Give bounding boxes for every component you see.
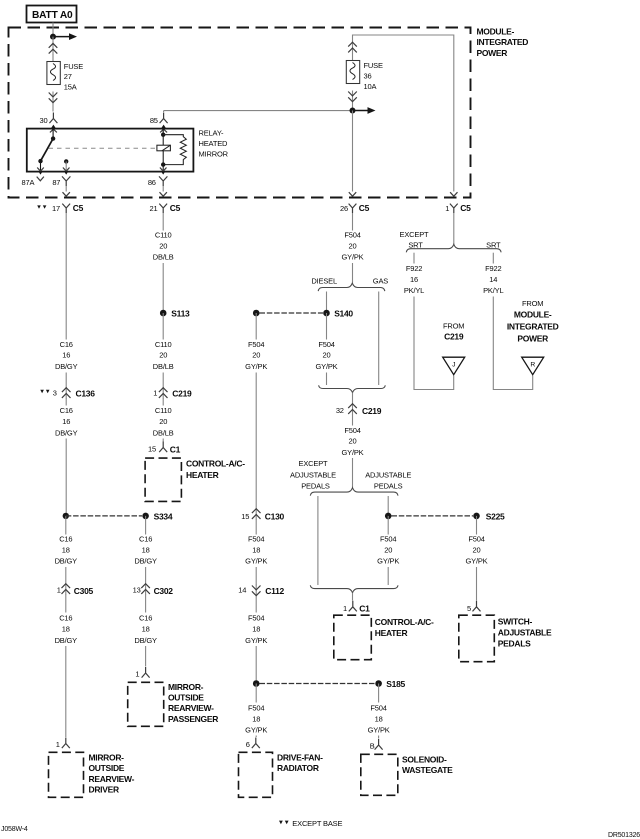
svg-text:10A: 10A	[364, 82, 377, 91]
node splice S140	[323, 310, 330, 317]
svg-text:GY/PK: GY/PK	[245, 362, 267, 371]
svg-text:PEDALS: PEDALS	[301, 481, 330, 490]
svg-text:C5: C5	[460, 203, 471, 213]
svg-text:PK/YL: PK/YL	[483, 286, 503, 295]
node splice S225	[473, 513, 480, 520]
svg-text:36: 36	[364, 72, 372, 81]
wire to pedals split	[352, 458, 354, 488]
svg-text:MODULE-: MODULE-	[514, 310, 552, 320]
svg-text:C302: C302	[154, 586, 174, 596]
solenoid-wastegate box	[361, 754, 398, 795]
relay pin 87A exit	[40, 161, 42, 171]
svg-text:15: 15	[148, 445, 156, 454]
svg-text:20: 20	[384, 545, 392, 554]
svg-text:20: 20	[349, 242, 357, 251]
off-page connector triangle R	[522, 357, 544, 375]
wire C5-17 down	[65, 213, 67, 340]
wire label C16 16 DB/GY	[65, 399, 67, 406]
wire C5-21 down	[162, 213, 164, 231]
wire label C110 20 DB/LB	[162, 313, 164, 340]
brace pedals split	[310, 488, 398, 496]
fuse 27 15A	[47, 62, 60, 85]
svg-text:FUSE: FUSE	[364, 61, 383, 70]
relay coil suppression resistor	[163, 135, 186, 165]
wire gas branch	[378, 292, 380, 386]
relay coil symbol	[157, 145, 171, 151]
wire C5-26 down	[352, 213, 354, 231]
relay switch blade	[41, 139, 54, 162]
wire down to mirror passenger	[145, 646, 147, 667]
node battery junction	[50, 34, 56, 40]
svg-text:13: 13	[133, 586, 141, 595]
wire label F504 20 GY/PK (left splice leg)	[255, 313, 257, 340]
wire pin87 to border	[65, 186, 67, 192]
svg-text:16: 16	[62, 351, 70, 360]
svg-text:18: 18	[62, 625, 70, 634]
svg-text:PK/YL: PK/YL	[404, 286, 424, 295]
wire down to drive-fan	[255, 736, 257, 738]
svg-text:SOLENOID-: SOLENOID-	[402, 754, 447, 764]
connector C305 pin 1	[62, 583, 71, 595]
svg-text:F504: F504	[248, 613, 264, 622]
wire relay pin85 horizontal from fuse36 junction	[164, 110, 353, 112]
svg-text:20: 20	[159, 242, 167, 251]
wire junction to fuse 27	[52, 37, 54, 44]
svg-text:C130: C130	[265, 512, 285, 522]
svg-text:3: 3	[53, 388, 57, 397]
node splice dot left	[63, 513, 69, 519]
relay coil branch	[162, 129, 164, 135]
svg-text:MIRROR-: MIRROR-	[89, 752, 125, 762]
wire splice link to S185	[260, 683, 376, 685]
svg-text:F504: F504	[318, 340, 334, 349]
switch-adjustable pedals box	[459, 615, 495, 662]
node splice dot adjustable pedals	[385, 513, 392, 520]
svg-text:S334: S334	[154, 512, 173, 522]
connector C1 pin 15	[162, 439, 164, 442]
svg-text:C1: C1	[359, 603, 370, 613]
connector C112 pin 14	[252, 585, 261, 597]
svg-text:26: 26	[340, 204, 348, 213]
svg-text:GY/PK: GY/PK	[341, 448, 363, 457]
wire except-pedals branch	[317, 496, 319, 585]
svg-text:CONTROL-A/C-: CONTROL-A/C-	[375, 617, 434, 627]
connector C219 pin 1	[159, 387, 168, 399]
svg-text:27: 27	[64, 72, 72, 81]
svg-text:S185: S185	[386, 679, 405, 689]
wire	[352, 263, 354, 283]
svg-text:HEATER: HEATER	[186, 470, 219, 480]
svg-text:20: 20	[473, 545, 481, 554]
wire label F504 20 GY/PK (adj pedals leg)	[387, 516, 389, 535]
svg-text:18: 18	[62, 545, 70, 554]
control-a/c-heater box 1	[145, 458, 181, 501]
connector C5 pin 26	[349, 192, 357, 213]
svg-text:C16: C16	[139, 535, 152, 544]
svg-text:MIRROR: MIRROR	[199, 150, 229, 159]
mirror-outside rearview-passenger box	[128, 682, 164, 726]
svg-text:5: 5	[467, 604, 471, 613]
pin 30 connector into relay	[49, 113, 57, 124]
svg-text:HEATER: HEATER	[375, 628, 408, 638]
svg-text:C136: C136	[76, 389, 96, 399]
connector C130 pin 15	[252, 508, 261, 520]
wire adjustable-pedals branch to dot	[387, 496, 389, 516]
svg-text:C16: C16	[59, 613, 72, 622]
svg-text:C110: C110	[155, 406, 172, 415]
wire down to splice dot	[255, 646, 257, 684]
svg-text:87: 87	[52, 178, 60, 187]
svg-text:C219: C219	[362, 406, 382, 416]
svg-text:15A: 15A	[64, 83, 77, 92]
svg-text:MIRROR-: MIRROR-	[168, 682, 204, 692]
svg-text:F504: F504	[248, 340, 264, 349]
connector C136 pin 3	[62, 387, 71, 399]
svg-text:6: 6	[246, 740, 250, 749]
svg-text:F504: F504	[344, 426, 360, 435]
svg-text:F922: F922	[485, 264, 501, 273]
svg-text:DIESEL: DIESEL	[311, 276, 337, 285]
svg-text:GY/PK: GY/PK	[377, 557, 399, 566]
wire label C16 18 DB/GY	[145, 516, 147, 535]
wire down to mirror driver	[65, 646, 67, 737]
fuse 36 10A	[346, 61, 359, 84]
svg-text:EXCEPT BASE: EXCEPT BASE	[292, 819, 342, 828]
svg-text:C1: C1	[170, 444, 181, 454]
relay linkage dashed line	[49, 147, 157, 149]
wire label F504 18 GY/PK	[378, 684, 380, 703]
svg-text:RELAY-: RELAY-	[199, 129, 224, 138]
wire BATT A0 to junction	[52, 23, 54, 37]
svg-text:REARVIEW-: REARVIEW-	[89, 774, 135, 784]
svg-text:20: 20	[159, 417, 167, 426]
svg-text:GAS: GAS	[373, 276, 388, 285]
svg-text:20: 20	[323, 351, 331, 360]
wire label C16 18 DB/GY	[65, 516, 67, 535]
svg-text:DB/LB: DB/LB	[153, 362, 174, 371]
svg-text:1: 1	[445, 204, 449, 213]
connector C5 pin 17	[62, 192, 70, 213]
wire diesel branch to S140	[326, 292, 328, 314]
wire label F504 20 GY/PK	[476, 516, 478, 535]
svg-text:C112: C112	[265, 586, 284, 596]
label EXCEPT BASE note	[279, 821, 289, 825]
svg-text:DB/GY: DB/GY	[55, 428, 78, 437]
svg-text:16: 16	[62, 417, 70, 426]
svg-text:18: 18	[142, 625, 150, 634]
svg-text:GY/PK: GY/PK	[465, 557, 487, 566]
svg-text:F504: F504	[248, 703, 264, 712]
svg-text:EXCEPT: EXCEPT	[400, 230, 430, 239]
node splice S113	[160, 310, 167, 317]
wire to triangle R	[493, 297, 532, 390]
svg-text:1: 1	[153, 388, 157, 397]
svg-text:17: 17	[52, 204, 60, 213]
wire merge to C1-1	[352, 593, 354, 601]
svg-text:PASSENGER: PASSENGER	[168, 714, 218, 724]
svg-text:18: 18	[252, 715, 260, 724]
svg-text:DR501326: DR501326	[608, 832, 640, 839]
node splice S185	[375, 680, 382, 687]
wire top horizontal to C5-1 drop	[353, 35, 454, 192]
svg-text:OUTSIDE: OUTSIDE	[89, 763, 125, 773]
connector C5 pin 21	[159, 192, 167, 213]
relay pin 87 contact	[64, 159, 68, 163]
svg-text:POWER: POWER	[477, 48, 508, 58]
wire junction arrow right	[53, 36, 70, 38]
connector C5 pin 1	[450, 192, 458, 213]
svg-text:C5: C5	[359, 203, 370, 213]
node splice dot left of S140	[253, 310, 260, 317]
svg-text:ADJUSTABLE: ADJUSTABLE	[498, 628, 552, 638]
svg-text:F504: F504	[468, 535, 484, 544]
svg-text:PEDALS: PEDALS	[498, 639, 531, 649]
svg-text:ADJUSTABLE: ADJUSTABLE	[290, 470, 336, 479]
svg-text:RADIATOR: RADIATOR	[277, 763, 319, 773]
svg-text:DB/GY: DB/GY	[134, 557, 157, 566]
svg-text:32: 32	[336, 406, 344, 415]
off-page connector triangle J	[443, 357, 465, 375]
wire label F504 18 GY/PK	[255, 684, 257, 703]
wire	[65, 373, 67, 388]
wire SRT branch	[492, 253, 494, 264]
svg-text:GY/PK: GY/PK	[341, 253, 363, 262]
wire label F504 20 GY/PK (S140 leg)	[326, 313, 328, 340]
svg-text:GY/PK: GY/PK	[245, 725, 267, 734]
svg-text:20: 20	[159, 351, 167, 360]
svg-text:1: 1	[343, 604, 347, 613]
wire merge to C219-32	[352, 393, 354, 403]
svg-text:C219: C219	[172, 389, 192, 399]
svg-text:INTEGRATED: INTEGRATED	[477, 37, 529, 47]
svg-text:GY/PK: GY/PK	[245, 636, 267, 645]
svg-text:C110: C110	[155, 340, 172, 349]
relay pin 86 exit	[162, 165, 164, 171]
relay switch common 30	[52, 129, 54, 139]
wire except-SRT branch	[413, 253, 415, 264]
node splice dot drive-fan	[253, 680, 260, 687]
node fuse36 junction	[350, 108, 356, 114]
svg-text:14: 14	[238, 586, 246, 595]
svg-text:21: 21	[150, 204, 158, 213]
svg-text:SWITCH-: SWITCH-	[498, 617, 533, 627]
node splice S334	[142, 513, 149, 520]
wire fuse36 junction to C5-26	[352, 111, 354, 192]
svg-text:C16: C16	[59, 535, 72, 544]
svg-text:DB/LB: DB/LB	[153, 428, 174, 437]
svg-text:C110: C110	[155, 231, 172, 240]
wire down to C130	[255, 373, 257, 509]
mirror-outside rearview-driver box	[49, 752, 84, 797]
svg-text:DB/LB: DB/LB	[153, 253, 174, 262]
wire splice link to S225	[392, 515, 474, 517]
svg-text:EXCEPT: EXCEPT	[299, 459, 329, 468]
svg-text:14: 14	[489, 275, 497, 284]
svg-text:C5: C5	[73, 203, 84, 213]
svg-text:MODULE-: MODULE-	[477, 26, 515, 36]
BATT A0 box	[27, 6, 77, 23]
svg-text:18: 18	[252, 625, 260, 634]
svg-text:C16: C16	[139, 613, 152, 622]
svg-text:POWER: POWER	[517, 334, 548, 344]
svg-text:30: 30	[40, 116, 48, 125]
svg-text:86: 86	[148, 178, 156, 187]
svg-text:85: 85	[150, 116, 158, 125]
svg-text:FROM: FROM	[522, 299, 543, 308]
svg-text:S140: S140	[334, 309, 353, 319]
svg-text:WASTEGATE: WASTEGATE	[402, 765, 453, 775]
svg-text:REARVIEW-: REARVIEW-	[168, 703, 214, 713]
svg-text:FUSE: FUSE	[64, 62, 83, 71]
svg-text:1: 1	[57, 586, 61, 595]
wire down to switch	[476, 567, 478, 601]
svg-text:R: R	[530, 362, 535, 369]
svg-text:F504: F504	[344, 231, 360, 240]
svg-text:GY/PK: GY/PK	[315, 362, 337, 371]
svg-text:F504: F504	[370, 703, 386, 712]
svg-text:C219: C219	[444, 332, 464, 342]
svg-text:1: 1	[56, 740, 60, 749]
drive-fan-radiator box	[239, 752, 273, 797]
svg-text:OUTSIDE: OUTSIDE	[168, 693, 204, 703]
brace pedals merge	[310, 585, 398, 593]
svg-text:87A: 87A	[21, 178, 34, 187]
svg-text:S113: S113	[171, 309, 190, 319]
svg-text:HEATED: HEATED	[199, 139, 229, 148]
svg-text:S225: S225	[486, 512, 505, 522]
wire fuse 27 to relay pin 30	[49, 92, 58, 104]
brace SRT split	[406, 244, 501, 252]
svg-text:16: 16	[410, 275, 418, 284]
svg-text:GY/PK: GY/PK	[368, 725, 390, 734]
svg-text:C16: C16	[60, 340, 73, 349]
wire	[162, 263, 164, 313]
svg-text:F504: F504	[380, 535, 396, 544]
svg-text:BATT A0: BATT A0	[32, 10, 73, 21]
wire C5-1 down to SRT split	[453, 213, 455, 244]
svg-text:DRIVER: DRIVER	[89, 785, 119, 795]
svg-text:C16: C16	[60, 406, 73, 415]
wire to triangle J	[414, 297, 454, 390]
svg-text:20: 20	[349, 437, 357, 446]
brace diesel/gas split	[318, 283, 385, 291]
svg-text:J: J	[452, 362, 455, 369]
svg-text:DB/GY: DB/GY	[55, 557, 78, 566]
control-a/c-heater box 2	[334, 615, 372, 660]
pin 85 connector into relay	[160, 113, 168, 124]
svg-text:DB/GY: DB/GY	[55, 362, 78, 371]
svg-text:CONTROL-A/C-: CONTROL-A/C-	[186, 458, 245, 468]
svg-text:ADJUSTABLE: ADJUSTABLE	[365, 470, 411, 479]
svg-text:18: 18	[252, 545, 260, 554]
svg-text:1: 1	[135, 670, 139, 679]
wire down to solenoid	[378, 736, 380, 739]
connector C302 pin 13	[141, 583, 150, 595]
wire down to splice	[65, 439, 67, 516]
svg-text:DB/GY: DB/GY	[55, 636, 78, 645]
svg-text:INTEGRATED: INTEGRATED	[507, 322, 559, 332]
svg-text:18: 18	[142, 545, 150, 554]
connector C219 pin 32	[348, 403, 357, 415]
brace diesel/gas merge	[319, 385, 386, 392]
svg-text:15: 15	[241, 512, 249, 521]
svg-text:B: B	[370, 742, 375, 751]
svg-text:F922: F922	[406, 264, 422, 273]
wire splice link S140	[260, 312, 324, 314]
svg-text:18: 18	[375, 715, 383, 724]
svg-text:DB/GY: DB/GY	[134, 636, 157, 645]
svg-text:DRIVE-FAN-: DRIVE-FAN-	[277, 752, 323, 762]
svg-text:20: 20	[252, 351, 260, 360]
svg-text:C305: C305	[74, 586, 94, 596]
svg-text:FROM: FROM	[443, 322, 464, 331]
wire pin86 to border	[162, 186, 164, 192]
svg-text:F504: F504	[248, 535, 264, 544]
svg-text:J058W-4: J058W-4	[1, 826, 28, 833]
svg-text:GY/PK: GY/PK	[245, 557, 267, 566]
svg-text:C5: C5	[170, 203, 181, 213]
module-integrated power dashed box	[9, 28, 471, 198]
wire splice link S334	[66, 515, 142, 517]
svg-text:PEDALS: PEDALS	[374, 481, 403, 490]
relay box	[27, 129, 194, 172]
